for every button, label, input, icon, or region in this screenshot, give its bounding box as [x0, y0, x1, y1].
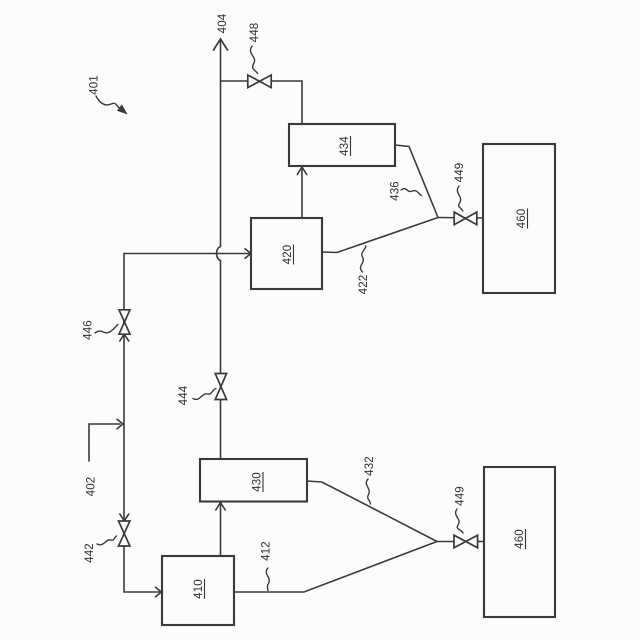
boxes: [162, 124, 555, 625]
leader 436: [401, 189, 422, 196]
svg-text:442: 442: [84, 543, 96, 563]
node: 401 arrowhead: [118, 105, 127, 113]
leader 422: [360, 246, 366, 272]
node: arrow down into valve 442: [120, 514, 129, 521]
svg-text:449: 449: [454, 163, 466, 183]
valve 446: [119, 310, 130, 334]
node 404 arrow: [214, 39, 228, 50]
node: arrow up into valve 446: [120, 334, 129, 341]
svg-text:446: 446: [83, 320, 95, 340]
svg-text:434: 434: [339, 136, 351, 156]
leader 444: [193, 389, 216, 400]
box 460 bottom underline: [525, 529, 527, 549]
box 460 bottom: [484, 467, 555, 617]
wire 402 leader with arrow into vertical line: [89, 424, 120, 461]
svg-text:430: 430: [252, 472, 264, 492]
svg-text:432: 432: [364, 456, 376, 476]
svg-text:448: 448: [249, 23, 261, 43]
wire 412: box 410 right to junction: [234, 542, 437, 593]
box 460 top: [483, 144, 555, 293]
node: arrow into box 420: [245, 249, 251, 258]
underlines for box labels: [205, 136, 528, 599]
wire 432: box 430 right to junction: [307, 481, 437, 542]
svg-text:444: 444: [178, 385, 190, 405]
leader 412: [266, 568, 269, 591]
svg-text:460: 460: [516, 209, 528, 229]
wire: junction through valve 449 to box 460 bottom: [437, 541, 484, 543]
svg-text:401: 401: [89, 75, 101, 95]
box 420 underline: [293, 245, 295, 265]
wire: main vertical line with hop over horizontal line: [217, 39, 221, 459]
node: arrow of 402 line: [117, 419, 123, 428]
wire: box 434 to box 420 vertical: [301, 168, 303, 218]
svg-text:460: 460: [514, 529, 526, 549]
box 430: [200, 459, 307, 502]
box 434: [289, 124, 395, 166]
box 460 top underline: [527, 209, 529, 229]
valve 442: [119, 521, 130, 546]
wire 436: box 434 right to junction: [395, 145, 438, 218]
box 410: [162, 556, 234, 625]
valve 444: [215, 374, 226, 400]
leader 432: [366, 479, 370, 504]
wire: box 410 to box 430 vertical: [220, 503, 222, 556]
labels (rotated): [83, 13, 529, 599]
svg-text:436: 436: [390, 181, 402, 201]
node: arrow into box 410: [156, 587, 162, 596]
wire 422: box 420 right to junction: [322, 218, 438, 253]
svg-text:402: 402: [86, 477, 98, 497]
valves (bowties): [119, 75, 478, 548]
svg-text:412: 412: [261, 541, 273, 561]
box 434 underline: [350, 136, 352, 156]
leader 442: [97, 536, 117, 545]
svg-text:404: 404: [217, 13, 229, 33]
box 420: [251, 218, 322, 289]
node: arrow up into box 434: [297, 167, 306, 175]
valve 448: [248, 75, 271, 88]
box 430 underline: [262, 472, 264, 492]
leader 449 bottom: [456, 509, 463, 533]
svg-text:449: 449: [455, 486, 467, 506]
squiggle leaders: [95, 46, 463, 591]
svg-text:410: 410: [193, 579, 205, 599]
wire: branch to valve 448 and down to box 434 top: [221, 81, 303, 124]
leader 446: [95, 325, 118, 334]
svg-text:422: 422: [358, 275, 370, 295]
wire: horizontal line into box 420: [124, 253, 250, 255]
leader 449 top: [457, 186, 462, 211]
valve 449 top: [454, 212, 477, 225]
svg-text:420: 420: [282, 245, 294, 265]
leader 448: [250, 46, 257, 74]
wire: left vertical line from corner through valves 446,442 to box 410: [124, 254, 160, 593]
box 410 underline: [204, 579, 206, 599]
leader 401: [96, 96, 121, 110]
valve 449 bottom: [454, 535, 478, 548]
wire: junction through valve 449 to box 460 top: [438, 217, 483, 220]
node: arrow up into box 430: [216, 503, 225, 511]
